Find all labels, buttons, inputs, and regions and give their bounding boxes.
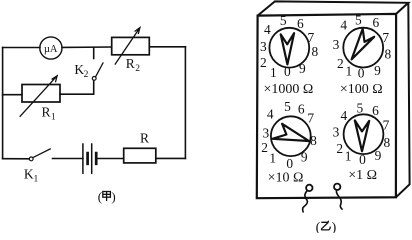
svg-text:4: 4 — [340, 108, 347, 123]
svg-text:2: 2 — [261, 140, 268, 155]
wire K2 pivot down to R1 branch — [93, 80, 95, 94]
resistance box top face edges — [258, 1, 409, 15]
dial x1 scale digits 0-9 — [333, 101, 391, 167]
wire K1 to battery — [53, 158, 83, 160]
battery cell plate short 2 — [95, 153, 98, 164]
battery cell plate long 1 — [82, 144, 84, 173]
svg-text:×1000 Ω: ×1000 Ω — [263, 82, 313, 97]
wire bottom-left to switch K1 — [3, 158, 30, 160]
svg-text:µA: µA — [44, 44, 58, 55]
svg-text:3: 3 — [333, 124, 340, 139]
svg-text:1: 1 — [51, 113, 56, 123]
terminal lead wire right — [336, 190, 342, 210]
wire R1 to K2 branch — [60, 93, 94, 95]
svg-text:3: 3 — [333, 37, 340, 52]
switch K1 pivot circle — [29, 157, 33, 161]
switch K2 pivot circle — [92, 77, 96, 81]
svg-text:×1 Ω: ×1 Ω — [348, 168, 377, 183]
svg-text:R: R — [126, 56, 135, 71]
svg-text:2: 2 — [260, 55, 267, 70]
svg-text:0: 0 — [284, 64, 291, 79]
resistor R2 (rheostat) — [112, 37, 150, 54]
wire from microammeter to R2 with junction at K2 branch — [62, 46, 112, 48]
switch K2 lever — [96, 63, 103, 76]
svg-text:7: 7 — [383, 118, 390, 133]
svg-text:8: 8 — [385, 47, 392, 62]
caption jia character drawn as strokes — [103, 192, 111, 202]
svg-text:(: ( — [316, 221, 321, 234]
microammeter uA — [40, 37, 62, 59]
wire battery to resistor R — [98, 158, 124, 160]
resistance box right side face edges — [396, 3, 410, 198]
wire right rail — [184, 47, 186, 159]
svg-text:9: 9 — [374, 63, 381, 78]
svg-text:5: 5 — [284, 99, 291, 114]
wire R2 to top-right corner — [149, 46, 185, 48]
wire top-left from left rail to microammeter — [3, 47, 40, 49]
svg-text:1: 1 — [269, 151, 276, 166]
svg-text:): ) — [332, 221, 337, 234]
svg-text:6: 6 — [298, 102, 305, 117]
svg-text:1: 1 — [34, 174, 39, 184]
svg-text:9: 9 — [375, 148, 382, 163]
battery cell plate short 1 — [86, 153, 89, 164]
caption yi character drawn as strokes — [321, 221, 330, 230]
svg-text:5: 5 — [357, 101, 364, 116]
svg-text:9: 9 — [299, 61, 306, 76]
resistor R1 (rheostat) — [22, 85, 60, 103]
svg-text:3: 3 — [263, 125, 270, 140]
svg-text:): ) — [111, 189, 115, 204]
dial x1 pointer — [355, 120, 369, 151]
svg-text:1: 1 — [345, 149, 352, 164]
dial x100 scale digits 0-9 — [333, 12, 392, 80]
terminal post right — [334, 184, 340, 190]
svg-text:6: 6 — [372, 15, 379, 30]
dial x10 knob circle — [271, 116, 311, 156]
battery cell plate long 2 — [91, 144, 93, 173]
svg-text:2: 2 — [337, 56, 344, 71]
svg-text:7: 7 — [307, 30, 314, 45]
svg-text:4: 4 — [340, 18, 347, 33]
dial x100 knob circle — [343, 28, 383, 68]
resistance box front face — [257, 14, 396, 198]
svg-text:8: 8 — [384, 135, 391, 150]
svg-text:5: 5 — [280, 13, 287, 28]
resistor R — [124, 148, 156, 163]
svg-text:1: 1 — [270, 65, 277, 80]
rheostat arrow of R1 — [20, 76, 57, 117]
svg-text:×10 Ω: ×10 Ω — [268, 170, 304, 185]
svg-text:4: 4 — [267, 106, 274, 121]
svg-text:2: 2 — [135, 64, 140, 74]
svg-text:1: 1 — [346, 64, 353, 79]
dial x10 pointer — [272, 124, 309, 141]
svg-text:6: 6 — [372, 103, 379, 118]
svg-text:0: 0 — [359, 152, 366, 167]
svg-text:8: 8 — [310, 133, 317, 148]
svg-text:2: 2 — [336, 141, 343, 156]
wire R to bottom-right corner — [156, 157, 186, 159]
dial x1 knob circle — [344, 114, 384, 154]
svg-text:R: R — [42, 104, 51, 119]
svg-text:4: 4 — [264, 22, 271, 37]
svg-text:K: K — [24, 167, 34, 182]
svg-text:7: 7 — [307, 111, 314, 126]
dial x1000 knob circle — [269, 28, 309, 68]
wire junction drop to switch K2 — [93, 47, 95, 58]
svg-text:0: 0 — [358, 66, 365, 81]
svg-text:×100 Ω: ×100 Ω — [340, 82, 383, 97]
svg-text:8: 8 — [311, 44, 318, 59]
svg-text:R: R — [140, 130, 149, 145]
svg-text:0: 0 — [286, 156, 293, 171]
wire left rail — [2, 48, 4, 159]
dial x10 scale digits 0-9 — [261, 99, 317, 171]
svg-text:6: 6 — [297, 16, 304, 31]
svg-text:3: 3 — [260, 39, 267, 54]
dial x1000 pointer — [281, 33, 294, 64]
terminal lead wire left — [303, 191, 308, 213]
svg-text:(: ( — [98, 189, 102, 204]
rheostat arrow of R2 — [115, 28, 140, 65]
dial x1000 scale digits 0-9 — [260, 13, 319, 80]
wire left rail to R1 — [3, 94, 22, 96]
terminal post left — [306, 185, 312, 191]
svg-text:2: 2 — [84, 70, 89, 80]
svg-text:7: 7 — [382, 30, 389, 45]
svg-text:9: 9 — [301, 149, 308, 164]
svg-text:5: 5 — [355, 12, 362, 27]
switch K1 lever — [33, 149, 50, 158]
dial x100 pointer — [352, 29, 375, 60]
